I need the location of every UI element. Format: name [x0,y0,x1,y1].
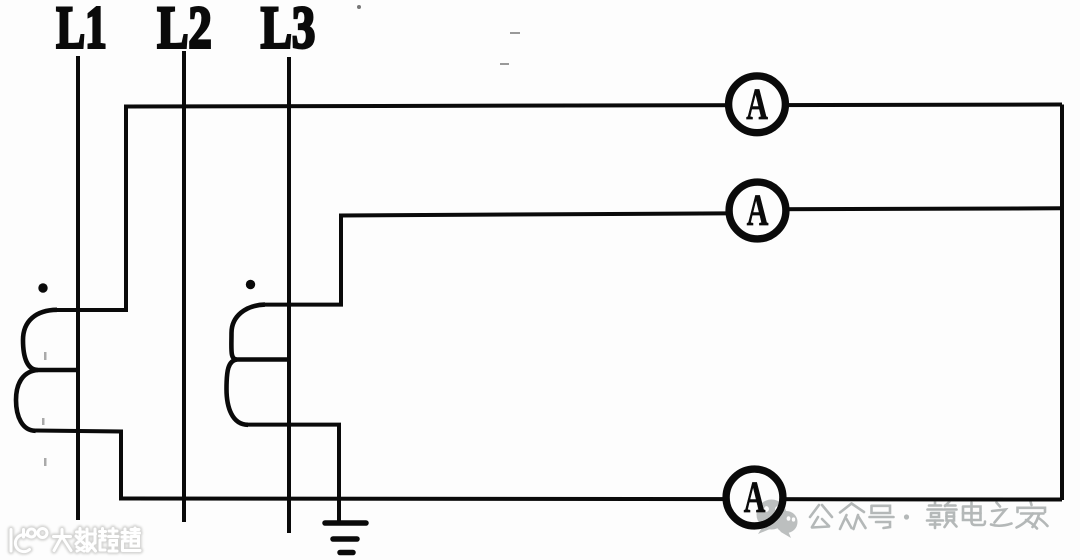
svg-text:L3: L3 [261,0,316,61]
svg-text:A: A [746,80,768,129]
svg-text:A: A [747,186,769,235]
svg-text:L1: L1 [56,0,106,61]
svg-text:L2: L2 [157,0,212,61]
